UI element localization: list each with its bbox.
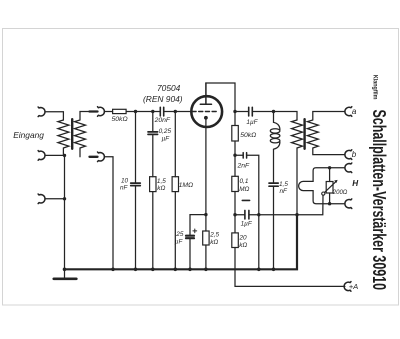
wire cathode to 2.5k: [205, 215, 207, 270]
input transformer T1 core: [71, 119, 73, 149]
wire J2 to ground drop: [104, 157, 113, 269]
svg-text:20: 20: [239, 234, 248, 241]
triode V1 envelope: [191, 96, 222, 127]
svg-text:Eingang: Eingang: [13, 130, 44, 140]
svg-text:nF: nF: [120, 185, 129, 192]
capacitor C 1uF coupling (series): [249, 107, 253, 116]
svg-text:µF: µF: [162, 136, 171, 143]
wire ground column from P2/P3 down to bus: [64, 155, 66, 269]
input connector P3: [38, 194, 64, 204]
wire 0.25uF / 1.5k column: [152, 112, 154, 270]
node dot C (x=175.3 on signal line): [174, 110, 177, 113]
capacitor C 10nF (shunt): [131, 183, 141, 186]
wire 1.5nF to bus: [273, 186, 275, 269]
choke L1: [270, 112, 280, 184]
svg-text:Klangfilm: Klangfilm: [371, 75, 378, 100]
node dot J3 (choke node): [272, 110, 275, 113]
rheostat arrow: [322, 180, 338, 195]
capacitor 20nF (series): [160, 107, 163, 116]
capacitor C 1.5nF (shunt): [269, 183, 278, 186]
svg-text:a: a: [352, 106, 357, 116]
node dot P3 junction: [63, 197, 66, 200]
terminal a: [345, 107, 352, 117]
wire 1uF to choke node to transformer: [253, 112, 297, 121]
output transformer T2 core: [303, 119, 305, 149]
heater block symbol: [299, 168, 345, 204]
terminal H bottom: [345, 199, 352, 209]
resistor R 1.5k (box): [150, 177, 156, 192]
node dot J4: [295, 213, 298, 216]
output transformer T2 secondary winding: [307, 112, 345, 155]
resistor R 20k (box): [232, 233, 239, 248]
cathode branch wire to 25uF: [190, 215, 206, 270]
svg-text:+A: +A: [349, 282, 359, 291]
resistor R 0.1M (box): [232, 176, 239, 191]
svg-text:µF: µF: [175, 239, 184, 246]
node dot B (x=152.8 on signal line): [151, 110, 154, 113]
wire 20nF to tube grid: [164, 111, 191, 113]
plus sign of 25uF: [193, 229, 197, 233]
node dot J6: [233, 213, 236, 216]
svg-text:2,5: 2,5: [209, 232, 219, 239]
node dot A (x=135.5 on signal line): [134, 110, 137, 113]
svg-text:50kΩ: 50kΩ: [240, 132, 256, 139]
input connector P1: [38, 107, 63, 120]
node dot J5: [233, 154, 236, 157]
terminal H top: [345, 163, 352, 173]
svg-text:1µF: 1µF: [241, 221, 253, 228]
svg-text:0,1: 0,1: [240, 178, 249, 185]
node dot cathode branch: [204, 213, 207, 216]
node dot J1 (anode node): [233, 110, 236, 113]
svg-text:25: 25: [175, 231, 184, 238]
cathode wire down: [205, 118, 207, 215]
svg-text:1,5: 1,5: [157, 178, 166, 185]
output transformer T2 primary winding: [292, 120, 303, 269]
wire plug to R1: [104, 111, 112, 113]
svg-text:0,25: 0,25: [159, 128, 172, 135]
svg-text:nF: nF: [280, 188, 289, 195]
svg-text:kΩ: kΩ: [239, 242, 247, 249]
svg-text:2nF: 2nF: [237, 162, 251, 169]
node dot H bottom: [328, 202, 331, 205]
svg-text:200Ω: 200Ω: [332, 190, 348, 196]
triode V1 grid (dashed): [192, 111, 218, 113]
resistor R 1M (box): [172, 177, 178, 192]
svg-text:kΩ: kΩ: [157, 185, 165, 192]
input transformer T1 secondary winding: [75, 112, 90, 157]
ground bus: [65, 215, 298, 270]
svg-text:MΩ: MΩ: [239, 186, 249, 193]
svg-text:70504: 70504: [157, 83, 181, 93]
triode V1 cathode dot: [204, 116, 208, 120]
wire J1 to 50k to J5: [234, 112, 236, 177]
svg-text:kΩ: kΩ: [210, 239, 218, 246]
svg-text:1µF: 1µF: [246, 119, 258, 126]
svg-text:(REN 904): (REN 904): [143, 94, 183, 104]
wiper wire to J4: [297, 195, 323, 215]
+A rail wire: [235, 285, 345, 287]
node dot P2 junction: [63, 154, 66, 157]
triode V1 anode: [200, 83, 211, 104]
input transformer T1 primary winding: [58, 120, 69, 155]
anode top wire to J1 node: [206, 83, 235, 112]
svg-text:10: 10: [121, 177, 129, 184]
terminal +A: [344, 282, 351, 292]
ground symbol: [64, 269, 66, 279]
svg-text:b: b: [352, 150, 357, 159]
polarity dash mark: [242, 199, 249, 201]
node dot H top: [328, 166, 331, 169]
svg-text:50kΩ: 50kΩ: [112, 116, 128, 123]
wire R1 to 20nF: [126, 111, 160, 113]
capacitor C 1uF (series on horizontal branch): [235, 210, 297, 219]
wire 10nF column: [135, 112, 137, 270]
rheostat 200ohm body: [326, 168, 333, 204]
wire anode node to 1uF: [235, 111, 248, 113]
svg-text:1MΩ: 1MΩ: [179, 182, 194, 189]
wire 1M column: [174, 112, 176, 270]
plug pair J2 (secondary bottom): [90, 152, 105, 162]
svg-text:1,5: 1,5: [279, 181, 288, 188]
resistor R1 50k (horizontal box): [113, 109, 127, 113]
node dot at 258.8/214.7: [257, 213, 260, 216]
resistor R 50k anode load (box): [232, 126, 239, 142]
wire 0.1M to J6: [234, 192, 236, 215]
svg-text:20nF: 20nF: [154, 117, 171, 124]
svg-text:Schallplatten-Verstärker 30910: Schallplatten-Verstärker 30910: [369, 110, 389, 291]
capacitor C 2nF (series, on branch): [235, 153, 259, 270]
bus node dots: [63, 268, 276, 272]
input connector P2: [38, 151, 64, 161]
terminal b: [345, 150, 352, 160]
wire J6 to 20k to +A rail: [234, 215, 236, 287]
plug pair J1 (secondary top): [90, 107, 105, 117]
capacitor C 25uF electrolytic: [186, 236, 194, 239]
capacitor C 0.25uF (shunt): [148, 132, 158, 135]
resistor R 2.5k (box): [203, 231, 209, 245]
